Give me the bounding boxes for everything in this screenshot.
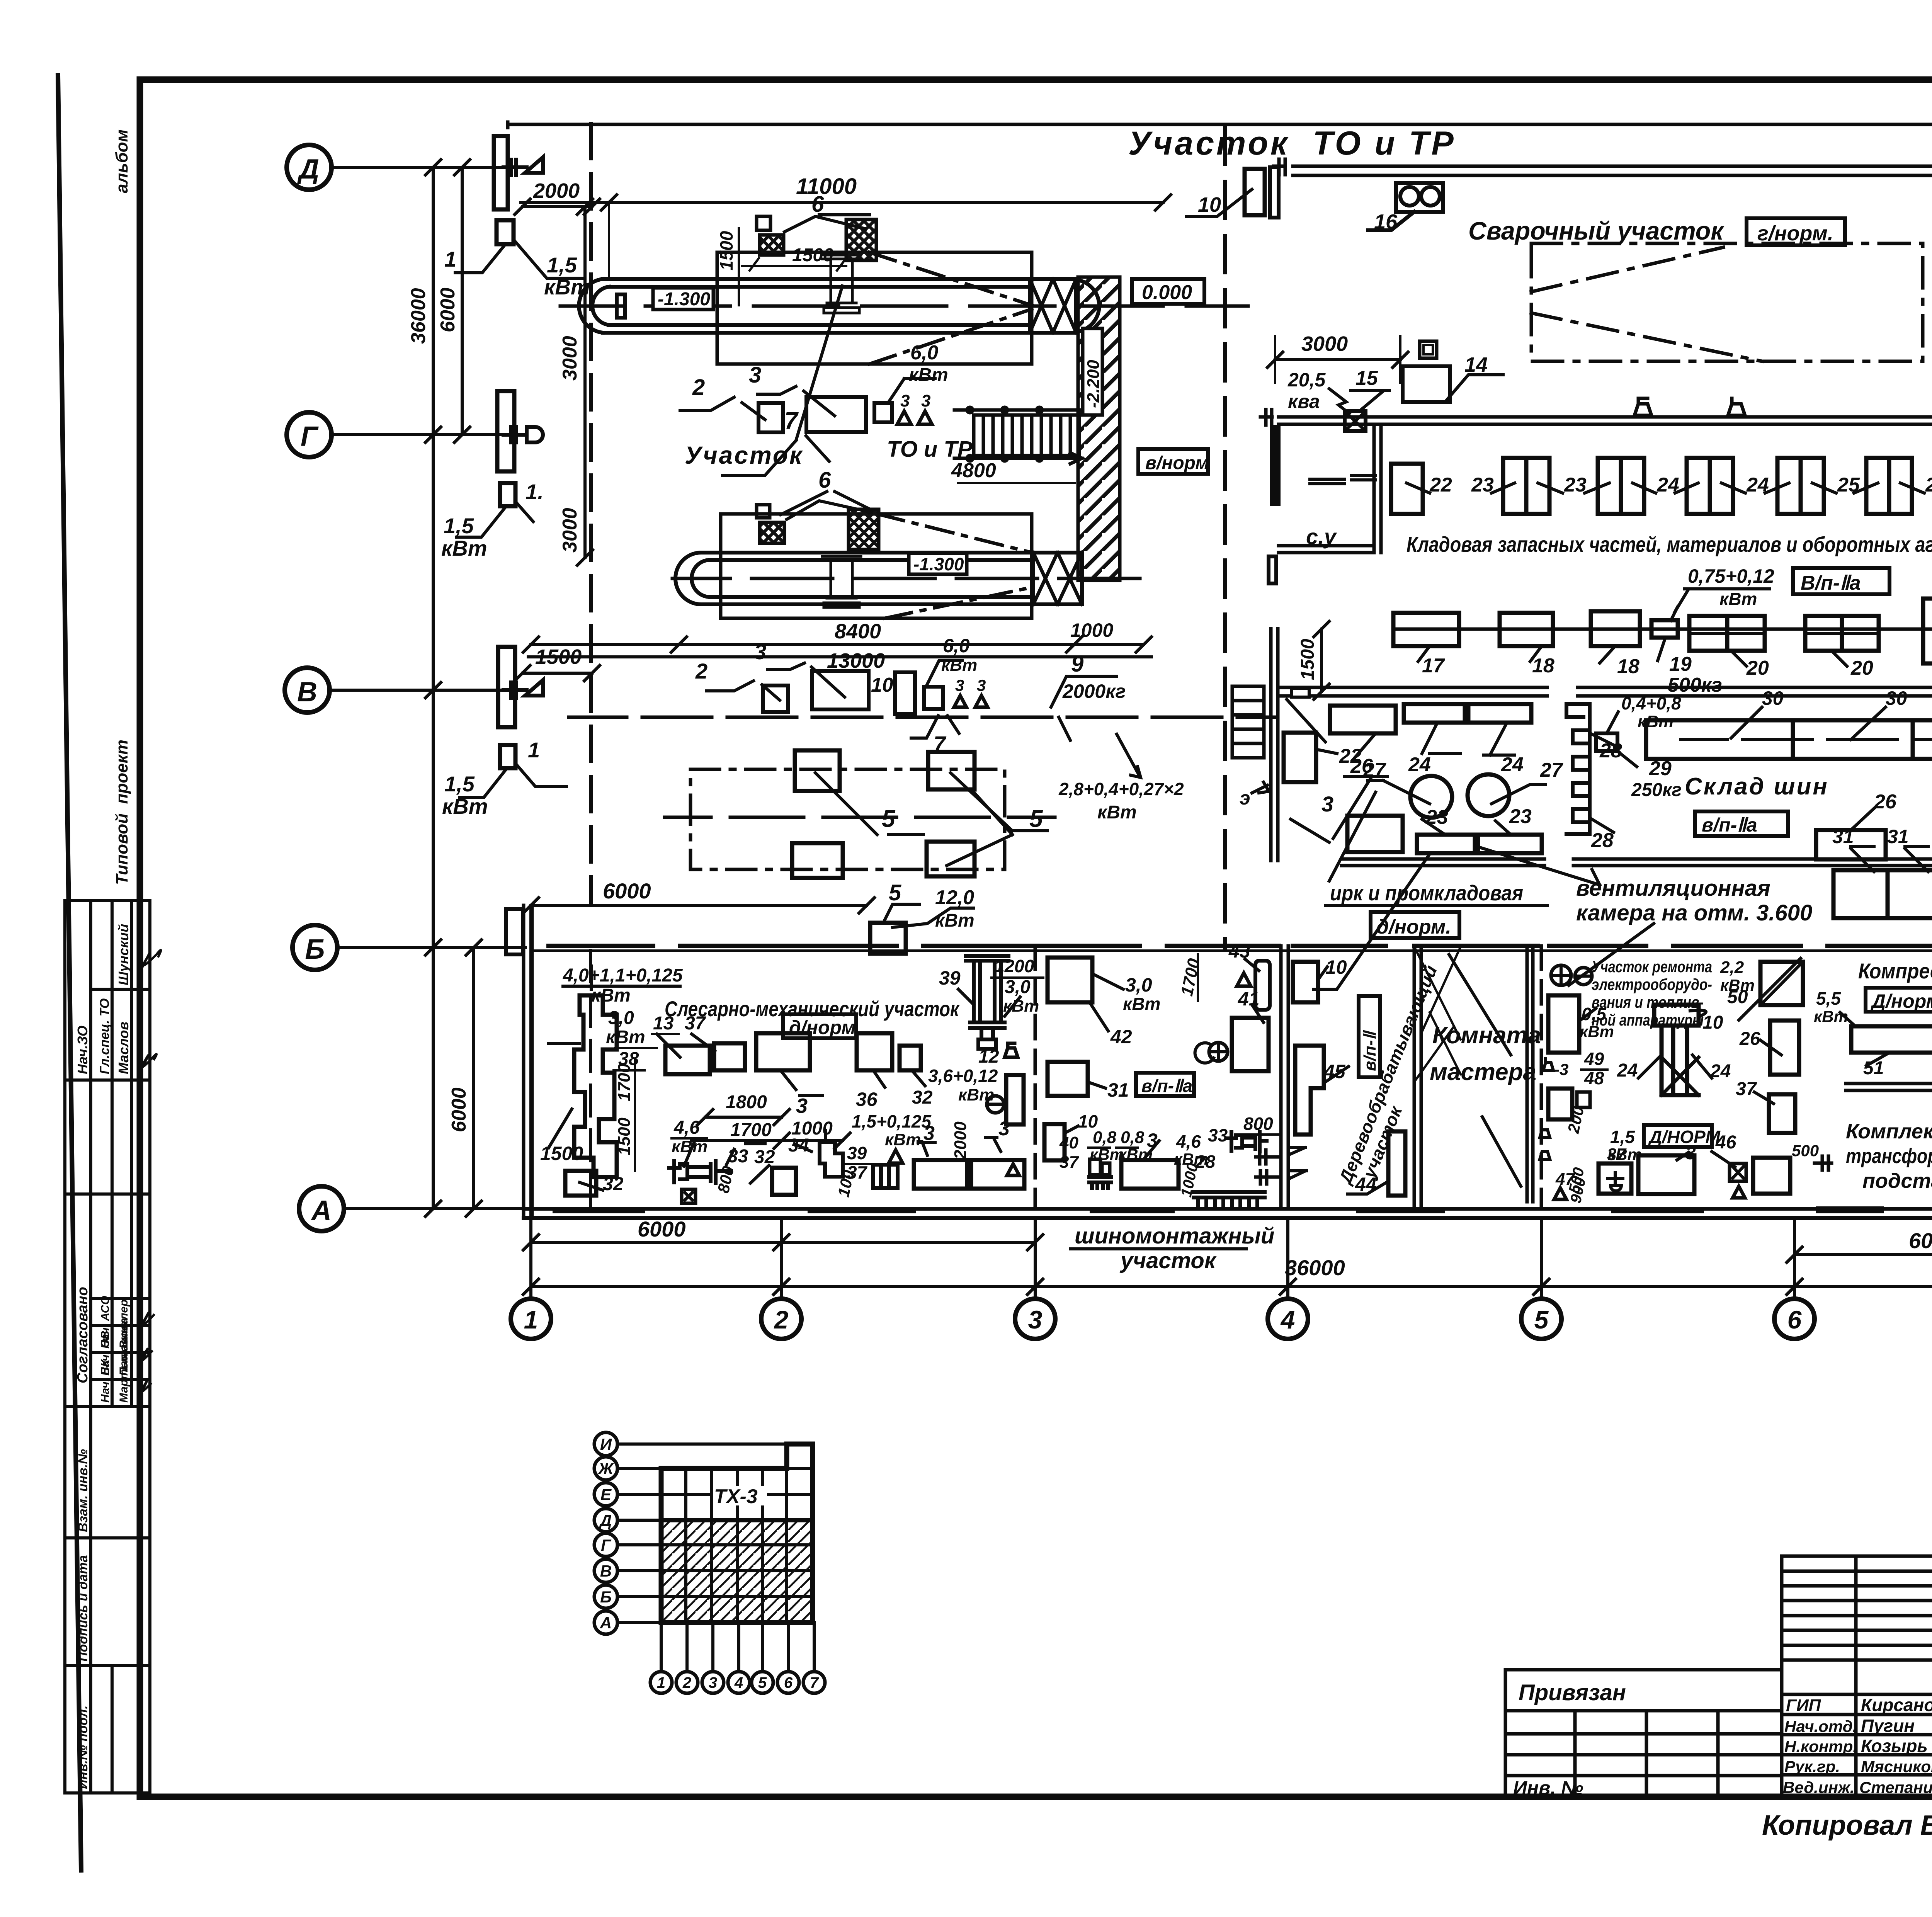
axis stems 1-7 (531, 866, 1932, 1299)
key plan grid (661, 1444, 813, 1623)
dim 11000 (521, 201, 1163, 204)
equip row at G axis: 2 3 6.0 (759, 403, 783, 432)
svg-text:г/норм.: г/норм. (1757, 222, 1833, 245)
svg-text:3: 3 (709, 1674, 717, 1691)
svg-text:36: 36 (856, 1089, 878, 1110)
signature scribbles (141, 950, 161, 1392)
svg-text:10: 10 (1325, 956, 1347, 978)
equip 16 welder (1368, 183, 1443, 230)
lift columns pit1 (item 7) (822, 255, 861, 313)
svg-text:ТО и ТР: ТО и ТР (887, 437, 973, 462)
svg-text:Маслов: Маслов (116, 1022, 131, 1074)
svg-text:Комплектная: Комплектная (1846, 1120, 1932, 1143)
bottom wall axis A (524, 1209, 1932, 1218)
equip 23 23 irk (1417, 835, 1475, 853)
svg-text:1,5+0,125: 1,5+0,125 (852, 1111, 932, 1131)
axis circle V (285, 668, 330, 713)
pit2 centerline (672, 577, 1140, 580)
svg-text:14: 14 (1464, 353, 1488, 376)
svg-text:2000: 2000 (951, 1121, 970, 1160)
svg-text:В: В (600, 1562, 612, 1580)
dim line 36000 (531, 1285, 1932, 1288)
svg-text:20: 20 (1850, 657, 1873, 679)
svg-text:33: 33 (728, 1146, 748, 1167)
axis ticks at wall D (503, 157, 543, 698)
svg-text:Копировал Волкова: Копировал Волкова (1762, 1810, 1932, 1841)
stairs block (1232, 686, 1264, 758)
svg-text:Участок ремонта: Участок ремонта (1592, 958, 1712, 976)
equip 3 irk (1347, 816, 1403, 852)
svg-text:Г: Г (301, 421, 319, 452)
svg-text:39: 39 (939, 967, 961, 989)
small triangles (897, 411, 932, 424)
svg-text:Участок: Участок (685, 441, 803, 469)
svg-text:30: 30 (1886, 687, 1907, 709)
svg-text:Кирсанов: Кирсанов (1861, 1695, 1932, 1715)
lathe 33 shinomontazh (1227, 1132, 1267, 1152)
B corner column (506, 909, 523, 954)
svg-text:6,0: 6,0 (943, 635, 970, 657)
privyazan + left table (1505, 1670, 1782, 1797)
svg-text:Гл.спец. ТО: Гл.спец. ТО (97, 998, 112, 1074)
svg-text:37: 37 (1060, 1153, 1079, 1172)
44 (1388, 1131, 1405, 1196)
svg-text:16: 16 (1374, 210, 1398, 233)
svg-text:-1.300: -1.300 (658, 289, 710, 310)
svg-text:шиномонтажный: шиномонтажный (1075, 1223, 1274, 1249)
svg-text:-2.200: -2.200 (1084, 360, 1103, 408)
svg-text:Б: Б (600, 1588, 612, 1606)
svg-text:40: 40 (1059, 1133, 1078, 1152)
-1.300 label box pit2 (909, 553, 967, 574)
svg-text:39: 39 (847, 1143, 867, 1163)
equip 10 top (1245, 169, 1265, 215)
svg-text:36000: 36000 (1285, 1255, 1345, 1280)
svg-text:6: 6 (811, 192, 824, 217)
dim 2000 at top (522, 205, 592, 208)
leader labels 1 / 1,5kVt top left (455, 240, 584, 798)
svg-text:в/п-Ⅱа: в/п-Ⅱа (1702, 814, 1757, 836)
svg-text:1: 1 (524, 1305, 538, 1334)
svg-text:6: 6 (818, 468, 831, 493)
svg-text:33: 33 (1208, 1125, 1228, 1145)
equip 22 irk (1284, 733, 1316, 782)
svg-text:2000кг: 2000кг (1062, 680, 1126, 702)
svg-text:4: 4 (1280, 1305, 1295, 1334)
svg-text:27: 27 (1540, 759, 1563, 781)
svg-text:Пугин: Пугин (1861, 1716, 1915, 1736)
tire rack comb 28 (1566, 704, 1590, 834)
vehicle outline 2 (dash-dot) (721, 514, 1032, 618)
svg-text:Инв.№ подл.: Инв.№ подл. (76, 1705, 90, 1789)
svg-text:23: 23 (1509, 805, 1532, 828)
bottom items (1638, 1155, 1694, 1194)
svg-text:3,0: 3,0 (608, 1008, 634, 1028)
svg-text:49: 49 (1584, 1049, 1604, 1069)
monorail 9 dash-dot (569, 716, 1276, 719)
svg-text:вания и топлив-: вания и топлив- (1592, 993, 1704, 1011)
svg-text:0,8: 0,8 (1121, 1128, 1145, 1147)
top crane rail line (508, 122, 1932, 128)
svg-text:25: 25 (1925, 474, 1932, 496)
svg-text:камера на отм. 3.600: камера на отм. 3.600 (1576, 900, 1812, 925)
svg-text:кВт: кВт (1123, 994, 1160, 1014)
svg-text:27: 27 (1363, 759, 1386, 781)
axis5 partition (1540, 946, 1543, 1209)
svg-text:альбом: альбом (112, 129, 131, 193)
svg-text:6: 6 (784, 1674, 793, 1691)
svg-text:37: 37 (1607, 1145, 1627, 1164)
svg-text:участок: участок (1119, 1248, 1217, 1273)
svg-text:6000: 6000 (448, 1087, 470, 1132)
svg-text:3: 3 (754, 640, 766, 664)
V wall of IRK room (1278, 687, 1932, 696)
v/p-II vertical box (1359, 996, 1380, 1077)
svg-text:10: 10 (871, 674, 893, 696)
svg-text:-3: -3 (1554, 1060, 1568, 1078)
svg-text:в/п-Ⅱа: в/п-Ⅱа (1141, 1076, 1192, 1096)
svg-text:19: 19 (1669, 653, 1692, 675)
svg-text:1700: 1700 (615, 1063, 634, 1101)
labels top left (563, 965, 706, 1069)
svg-text:кВт: кВт (885, 1130, 921, 1149)
svg-text:32: 32 (603, 1174, 624, 1194)
svg-text:Н.контр.: Н.контр. (1784, 1737, 1857, 1755)
bottom wall axis A window marks (553, 1207, 1704, 1213)
svg-text:45: 45 (1323, 1061, 1346, 1082)
g/norm box (1747, 218, 1845, 245)
svg-text:в/п-Ⅱ: в/п-Ⅱ (1361, 1030, 1379, 1071)
SU room (1272, 427, 1279, 504)
svg-text:Д: Д (297, 154, 319, 185)
lathe 33 (669, 1161, 731, 1183)
right part items (1753, 1158, 1790, 1194)
svg-text:кВт: кВт (442, 794, 488, 818)
svg-text:Мартынов: Мартынов (117, 1338, 130, 1403)
svg-text:Сварочный участок: Сварочный участок (1468, 216, 1725, 245)
equip 26 sklad (1816, 830, 1886, 859)
svg-text:6000: 6000 (437, 287, 459, 332)
rect 31 (1048, 1062, 1088, 1096)
svg-text:Рук.гр.: Рук.гр. (1784, 1757, 1840, 1776)
svg-text:5: 5 (1029, 806, 1043, 832)
svg-text:1700: 1700 (1177, 957, 1204, 998)
shelving row 22-25 (1391, 464, 1423, 514)
vehicle outline 1 (dash-dot) (717, 252, 1032, 364)
v/p-IIa box sklad (1695, 811, 1788, 836)
svg-text:24: 24 (1617, 1060, 1638, 1081)
dim 1500 at V (522, 672, 592, 675)
small cross item (682, 1189, 696, 1203)
svg-text:Ж: Ж (598, 1459, 614, 1478)
svg-text:с.у: с.у (1306, 524, 1337, 549)
svg-text:3: 3 (977, 676, 986, 694)
svg-text:А: А (600, 1614, 612, 1632)
bottom circles 1..7 (650, 1672, 825, 1693)
svg-text:42: 42 (1110, 1026, 1132, 1048)
svg-text:Нач.отд.: Нач.отд. (1784, 1717, 1857, 1735)
51 rects (1851, 1026, 1932, 1053)
svg-text:ква: ква (1288, 391, 1320, 412)
26 right (1770, 1021, 1799, 1075)
svg-text:А: А (311, 1195, 332, 1226)
svg-text:д/норм.: д/норм. (1376, 916, 1451, 938)
svg-text:Степанина: Степанина (1859, 1778, 1932, 1796)
svg-text:12: 12 (978, 1046, 999, 1067)
svg-text:Подпись и дата: Подпись и дата (76, 1555, 90, 1662)
sq 32 bottom left (565, 1171, 596, 1196)
svg-text:43: 43 (1228, 940, 1250, 962)
svg-text:2: 2 (774, 1305, 789, 1334)
rotated margin texts (75, 129, 131, 1789)
B axis wall thin continuity (531, 949, 1932, 952)
svg-text:24: 24 (1710, 1061, 1731, 1082)
svg-text:В: В (297, 677, 317, 708)
svg-text:1: 1 (528, 738, 540, 762)
svg-text:2: 2 (692, 375, 705, 400)
vertical dim line 36000 (432, 167, 435, 1209)
svg-text:ирк и промкладовая: ирк и промкладовая (1330, 881, 1523, 905)
kladovaya wall (1279, 417, 1932, 424)
axis B wall (dashed heavy) (549, 944, 1932, 948)
svg-text:44: 44 (1355, 1174, 1377, 1195)
svg-text:ТХ-3: ТХ-3 (714, 1485, 758, 1508)
svg-text:Козырь: Козырь (1861, 1736, 1928, 1756)
door marks (1291, 1148, 1306, 1178)
svg-text:3000: 3000 (559, 508, 581, 553)
svg-text:500: 500 (1792, 1141, 1819, 1160)
equip 24 24 irk (1404, 704, 1465, 723)
v/norm box (1138, 449, 1208, 474)
svg-text:23: 23 (1425, 806, 1448, 828)
svg-text:1500: 1500 (716, 231, 736, 270)
svg-text:Инв. №: Инв. № (1513, 1777, 1583, 1799)
svg-text:Участок ТО и ТР: Участок ТО и ТР (1128, 125, 1456, 162)
svg-text:Компрессорная: Компрессорная (1858, 959, 1932, 983)
svg-text:2000: 2000 (533, 179, 580, 202)
10 tall + label (1293, 962, 1318, 1002)
svg-text:И: И (600, 1435, 612, 1453)
svg-text:3000: 3000 (1301, 332, 1348, 356)
svg-text:в/норм: в/норм (1145, 453, 1209, 473)
svg-text:4,6: 4,6 (1176, 1131, 1201, 1152)
svg-text:20: 20 (1746, 657, 1769, 679)
press 39 (966, 956, 1009, 1049)
svg-text:11000: 11000 (796, 174, 857, 199)
svg-text:Д/норм: Д/норм (1870, 990, 1932, 1012)
svg-text:32: 32 (912, 1087, 933, 1108)
dim 6000 left vertical bottom (531, 904, 867, 907)
v/p-IIa box (1793, 568, 1889, 594)
vertical dim line 6000 seg (472, 947, 475, 1209)
svg-text:1,5: 1,5 (547, 253, 577, 277)
svg-text:кВт: кВт (1580, 1022, 1614, 1041)
svg-text:кВт: кВт (606, 1027, 645, 1048)
svg-text:24: 24 (1501, 754, 1524, 776)
svg-text:3,0: 3,0 (1125, 974, 1152, 996)
small equipment bottom row shinomontazh (1044, 1124, 1065, 1160)
svg-text:250кг: 250кг (1631, 780, 1682, 800)
outer trim line left (58, 75, 81, 1870)
svg-text:1.: 1. (526, 480, 544, 504)
svg-text:-1.300: -1.300 (913, 554, 964, 574)
svg-text:4800: 4800 (951, 459, 996, 482)
svg-text:1,5: 1,5 (1610, 1127, 1635, 1147)
svg-text:37: 37 (1736, 1079, 1757, 1099)
svg-text:кВт: кВт (909, 365, 948, 385)
key plan leaders left (617, 1444, 787, 1623)
stairs right (G area) (954, 407, 1082, 464)
svg-text:1800: 1800 (726, 1092, 767, 1112)
hatched scope TX-3 (661, 1520, 813, 1623)
left wall of building (524, 905, 532, 1218)
-1.300 label box pit1 (653, 288, 713, 310)
svg-text:31: 31 (1887, 826, 1909, 847)
dim line 6000 row (523, 1235, 1932, 1262)
svg-text:3: 3 (1028, 1305, 1043, 1334)
svg-text:28: 28 (1591, 829, 1614, 852)
equip 26 irk (1330, 706, 1396, 733)
svg-text:0,5: 0,5 (1582, 1004, 1607, 1024)
svg-text:3: 3 (900, 391, 910, 410)
-2.200 vertical box (1083, 328, 1102, 415)
svg-text:51: 51 (1863, 1058, 1884, 1078)
svg-text:15: 15 (1355, 367, 1378, 390)
left column equip (1548, 995, 1579, 1053)
svg-text:0.000: 0.000 (1142, 281, 1192, 304)
svg-text:3: 3 (749, 362, 761, 388)
dim 3000 (1275, 358, 1400, 361)
svg-text:800: 800 (1243, 1114, 1273, 1134)
svg-text:трансформаторная: трансформаторная (1846, 1145, 1932, 1168)
svg-text:Склад шин: Склад шин (1685, 773, 1829, 800)
svg-text:1500: 1500 (792, 245, 833, 265)
svg-text:0,75+0,12: 0,75+0,12 (1688, 565, 1774, 587)
svg-text:2,8+0,4+0,27×2: 2,8+0,4+0,27×2 (1058, 779, 1184, 799)
svg-text:18: 18 (1617, 655, 1639, 678)
d/norm box irk (1371, 912, 1459, 938)
axis circle D (285, 145, 344, 1231)
svg-text:6,0: 6,0 (910, 342, 938, 364)
vertical dim line 6000 D-G (461, 167, 464, 435)
svg-text:кВт: кВт (591, 985, 631, 1006)
svg-text:Нач. ВК: Нач. ВК (99, 1359, 112, 1403)
lift pit 2 (675, 553, 1028, 604)
svg-text:Е: Е (600, 1485, 612, 1504)
svg-text:Согласовано: Согласовано (75, 1287, 91, 1383)
svg-text:кВт: кВт (935, 910, 975, 931)
svg-text:подстанция: подстанция (1862, 1169, 1932, 1192)
monorail kladovaya (1393, 628, 1932, 631)
svg-text:22: 22 (1429, 474, 1452, 496)
svg-text:6000: 6000 (638, 1217, 686, 1241)
svg-text:9: 9 (1071, 651, 1083, 677)
svg-text:Г: Г (601, 1536, 612, 1554)
svg-text:50: 50 (1727, 987, 1748, 1007)
svg-text:Нач.ЗО: Нач.ЗО (75, 1026, 90, 1074)
lift pit 1 (579, 279, 1032, 333)
axis circle G (287, 412, 332, 457)
hatched wall band right of TO section (1078, 277, 1120, 580)
14 with small sq (1420, 341, 1437, 358)
dims 13000 8400 1000 (531, 643, 1144, 646)
svg-text:кВт: кВт (1719, 589, 1757, 609)
vehicle outline welding (dash-dot) (1531, 243, 1923, 361)
svg-text:6000: 6000 (603, 879, 651, 903)
svg-text:1200: 1200 (995, 956, 1034, 976)
dims 1800 1700 1000 (705, 1116, 782, 1119)
title block texts (1513, 1577, 1932, 1841)
svg-text:Привязан: Привязан (1519, 1680, 1626, 1705)
equip row: 13 37 3 36 (665, 1046, 710, 1074)
axis4 partition wall (1281, 946, 1288, 1209)
svg-text:5: 5 (882, 806, 896, 832)
svg-text:2: 2 (682, 1674, 691, 1691)
comb rack (1194, 1192, 1265, 1206)
svg-text:26: 26 (1739, 1029, 1760, 1049)
svg-text:32: 32 (754, 1147, 775, 1167)
svg-text:Д: Д (599, 1511, 612, 1529)
svg-text:18: 18 (1532, 655, 1554, 677)
svg-text:0,8: 0,8 (1093, 1128, 1117, 1147)
svg-text:10: 10 (1702, 1012, 1723, 1033)
svg-text:7: 7 (784, 408, 799, 434)
svg-text:1000: 1000 (1070, 619, 1113, 641)
axis leader lines left (330, 167, 526, 1209)
equip row under line: 2 3 10 small (763, 685, 788, 712)
svg-text:26: 26 (1874, 791, 1897, 813)
left columns on axes (494, 136, 515, 768)
svg-text:5: 5 (758, 1674, 767, 1691)
svg-text:Типовой проект: Типовой проект (112, 740, 131, 885)
hatched squares pit2 (760, 522, 784, 543)
svg-text:Мясникова: Мясникова (1861, 1757, 1932, 1776)
svg-text:вентиляционная: вентиляционная (1576, 876, 1770, 901)
equip row 17-21 (1393, 599, 1932, 663)
machine 38 stepped outline (574, 995, 617, 1177)
svg-text:200: 200 (1564, 1105, 1588, 1135)
svg-text:10: 10 (1198, 193, 1221, 216)
svg-text:1,5: 1,5 (444, 772, 475, 796)
svg-text:3: 3 (796, 1094, 808, 1118)
svg-text:7: 7 (810, 1674, 819, 1691)
tall upper table (1782, 1556, 1932, 1675)
svg-text:Шунский: Шунский (116, 924, 131, 985)
svg-text:3,6+0,12: 3,6+0,12 (928, 1066, 998, 1086)
tanks 27 (1410, 776, 1452, 818)
H door marks near axis4 (1256, 1150, 1279, 1184)
item 5 near B wall with 12,0 kVt (870, 923, 906, 954)
svg-text:20,5: 20,5 (1287, 369, 1326, 391)
svg-text:31: 31 (1107, 1079, 1129, 1101)
svg-text:кВт: кВт (1097, 802, 1137, 823)
svg-text:48: 48 (1584, 1068, 1604, 1088)
big sq 42 (1048, 958, 1092, 1002)
svg-text:8400: 8400 (835, 620, 881, 643)
rects 3,3 (914, 1160, 967, 1189)
svg-text:3: 3 (955, 676, 964, 694)
svg-text:1500: 1500 (615, 1118, 634, 1155)
TX-3 label (713, 1486, 767, 1505)
machine 34 (820, 1142, 843, 1177)
svg-text:0,4+0,8: 0,4+0,8 (1621, 693, 1681, 713)
svg-text:3: 3 (923, 1122, 935, 1145)
svg-text:6: 6 (1787, 1305, 1802, 1334)
svg-text:электрооборудо-: электрооборудо- (1592, 975, 1712, 993)
hatched equipment 6 squares pit1 (760, 235, 784, 255)
axis circle A (299, 1186, 344, 1231)
svg-text:17: 17 (1422, 655, 1445, 677)
